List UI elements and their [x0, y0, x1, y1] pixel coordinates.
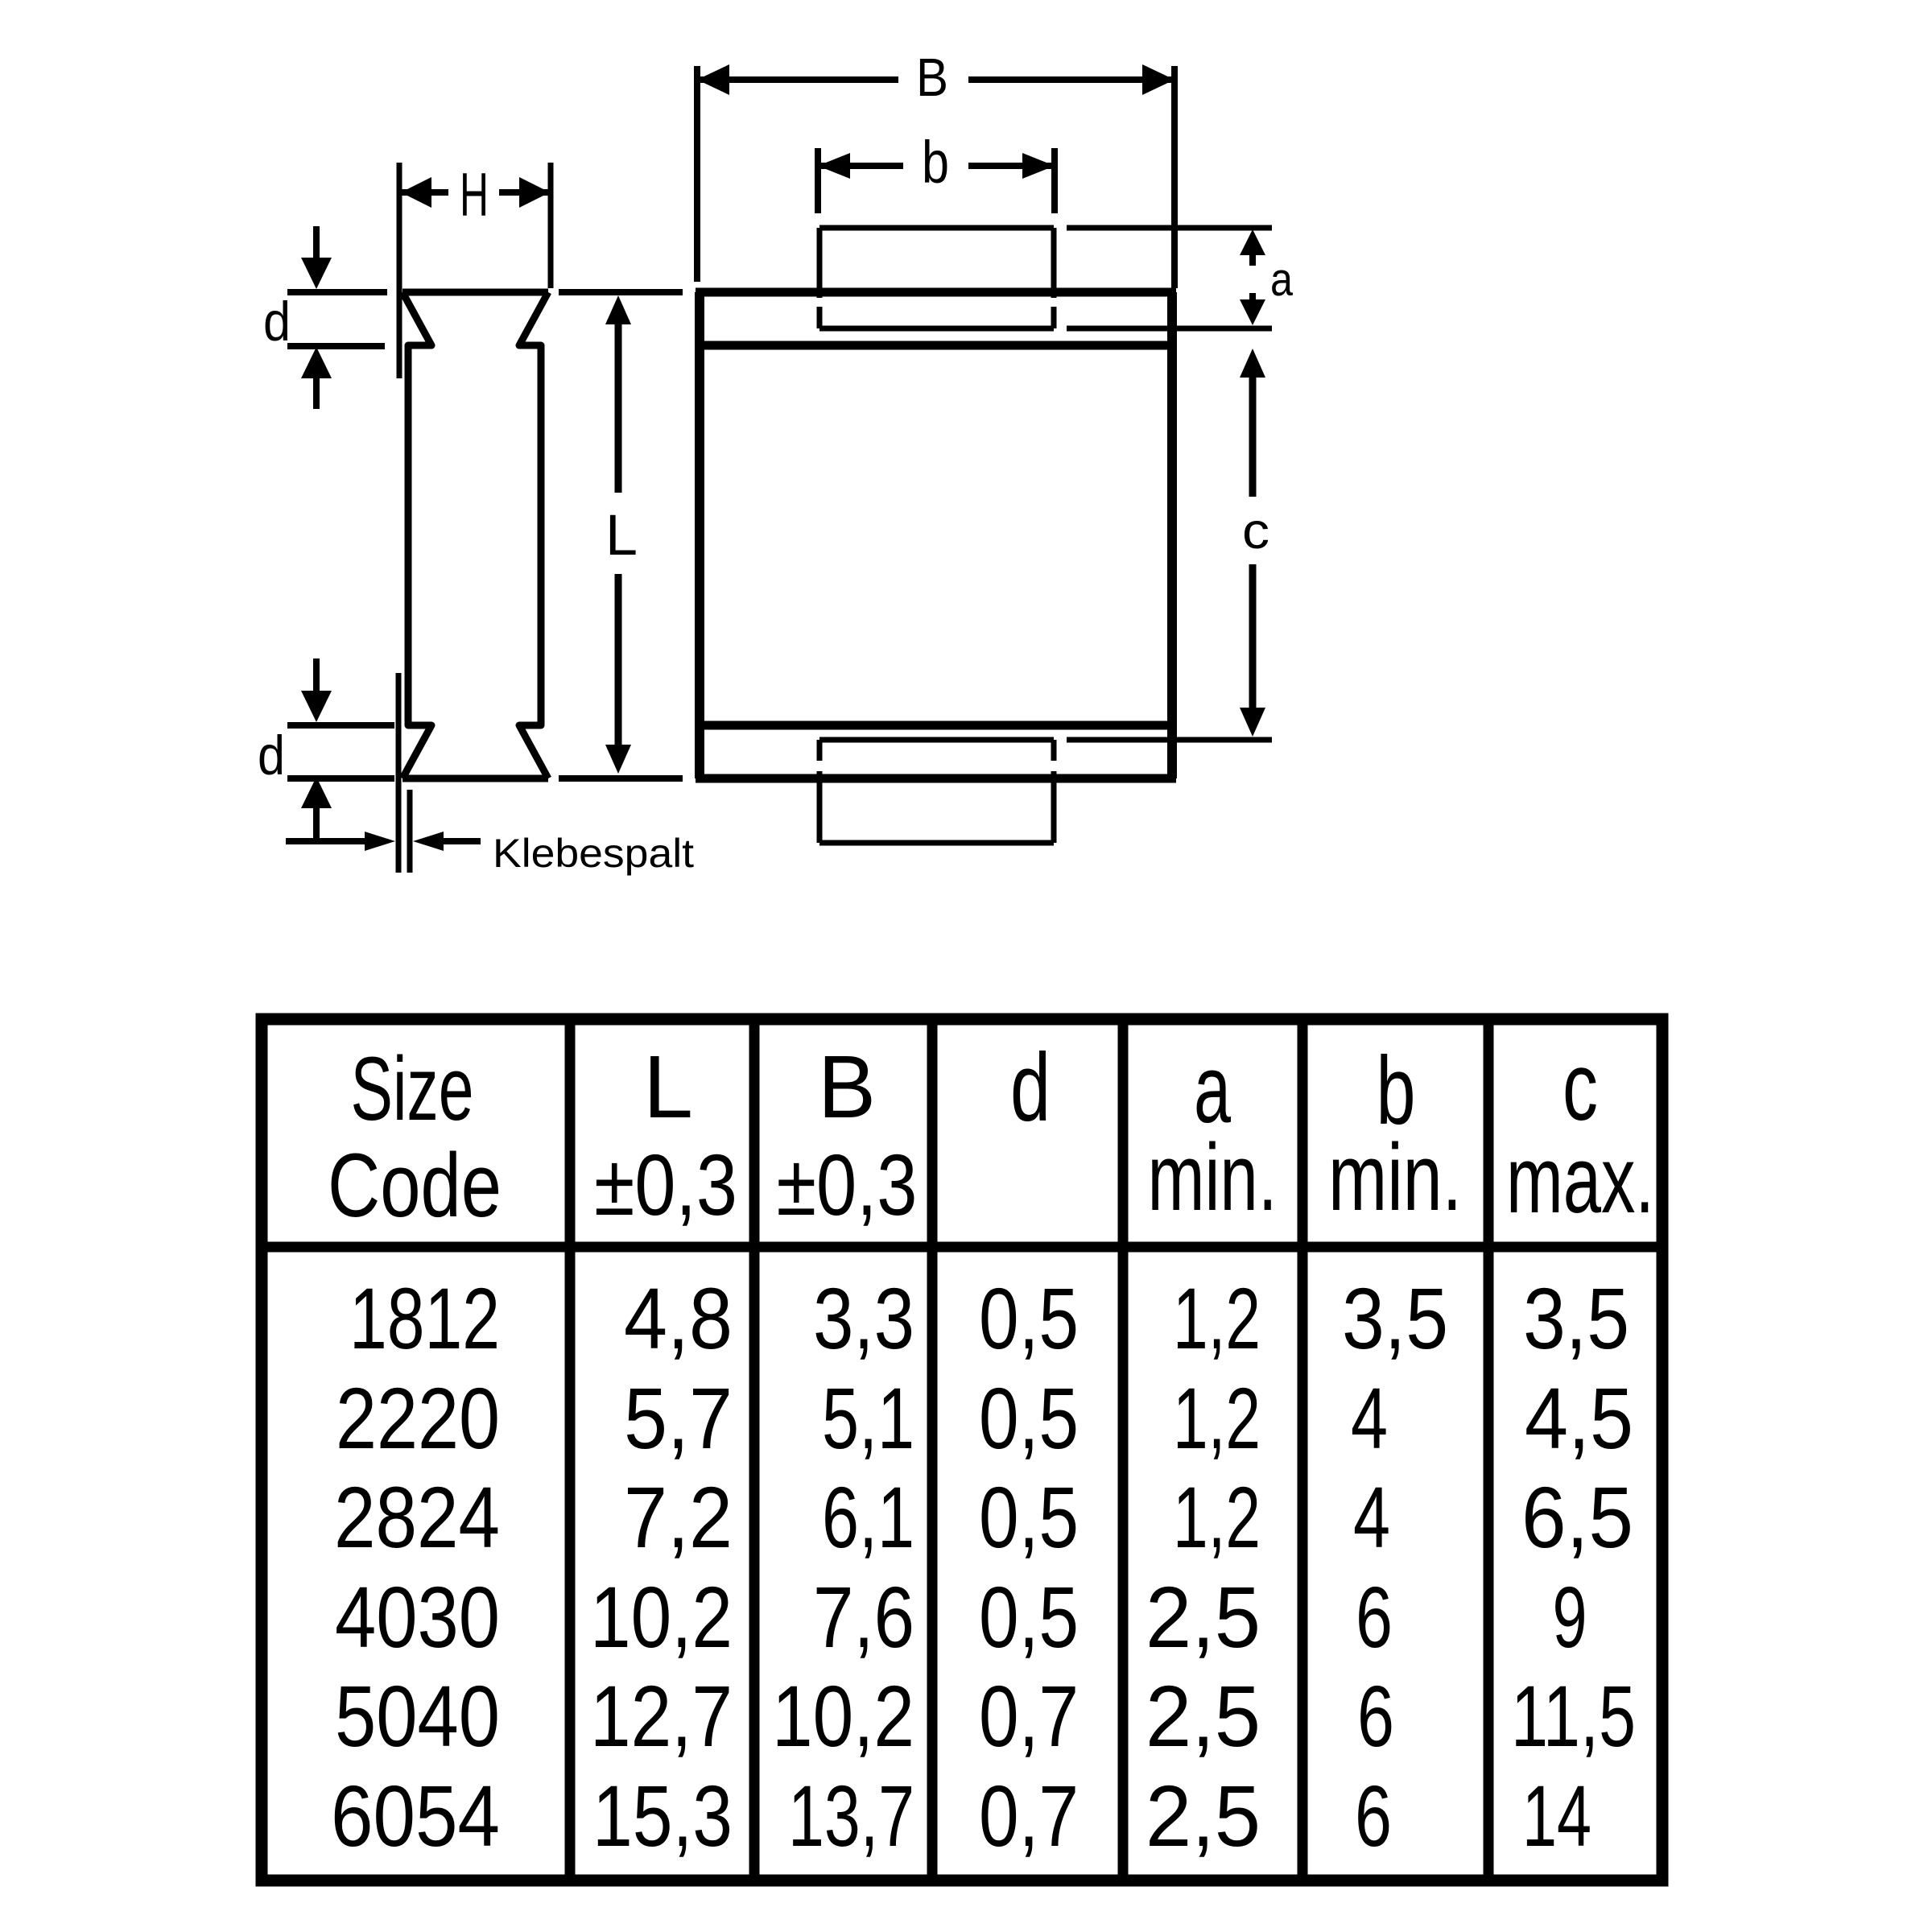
dimension c — [1240, 349, 1269, 737]
svg-text:1,2: 1,2 — [1173, 1269, 1261, 1367]
dimension c extension line — [1067, 737, 1272, 743]
svg-text:6,5: 6,5 — [1521, 1468, 1633, 1566]
svg-text:L: L — [605, 504, 638, 568]
dimension L — [605, 295, 638, 774]
svg-text:2,5: 2,5 — [1146, 1667, 1261, 1765]
dimension d (top) extension lines — [287, 292, 387, 346]
svg-text:L: L — [643, 1038, 693, 1137]
front view bottom metallization band line — [696, 721, 1176, 730]
svg-text:15,3: 15,3 — [592, 1767, 733, 1864]
svg-text:d: d — [263, 291, 291, 353]
svg-text:1812: 1812 — [349, 1269, 500, 1367]
svg-text:5040: 5040 — [335, 1667, 500, 1765]
svg-text:d: d — [1010, 1034, 1051, 1141]
svg-text:11,5: 11,5 — [1511, 1667, 1636, 1765]
svg-text:a: a — [1270, 254, 1294, 306]
dimension H — [401, 161, 551, 229]
svg-text:b: b — [922, 129, 949, 196]
svg-text:14: 14 — [1522, 1767, 1591, 1864]
table data: B column — [772, 1269, 914, 1864]
svg-text:max.: max. — [1506, 1127, 1654, 1233]
table data: c column — [1511, 1269, 1636, 1864]
dimension b extension lines — [818, 148, 1055, 213]
dimension b — [818, 129, 1055, 196]
svg-text:4030: 4030 — [335, 1568, 500, 1666]
svg-text:6: 6 — [1355, 1767, 1392, 1864]
svg-text:6,1: 6,1 — [822, 1468, 914, 1566]
front view top edge — [696, 288, 1176, 297]
svg-text:3,5: 3,5 — [1523, 1269, 1629, 1367]
svg-text:2,5: 2,5 — [1146, 1568, 1261, 1666]
front view body outline — [700, 292, 1172, 778]
svg-text:4,8: 4,8 — [624, 1269, 733, 1367]
svg-text:10,2: 10,2 — [590, 1568, 733, 1666]
front view bottom edge — [696, 774, 1176, 783]
table data: Size Code column — [331, 1269, 500, 1864]
svg-text:4,5: 4,5 — [1525, 1369, 1633, 1467]
svg-text:H: H — [460, 161, 489, 229]
svg-text:4: 4 — [1353, 1468, 1390, 1566]
svg-text:2220: 2220 — [336, 1369, 500, 1467]
svg-text:5,1: 5,1 — [822, 1369, 914, 1467]
dimension L extension lines — [559, 292, 683, 778]
dimension H extension lines — [399, 163, 551, 378]
dimension a extension lines — [1067, 228, 1272, 328]
svg-text:5,7: 5,7 — [624, 1369, 733, 1467]
svg-text:12,7: 12,7 — [590, 1667, 733, 1765]
svg-text:0,7: 0,7 — [979, 1667, 1079, 1765]
svg-text:6: 6 — [1357, 1667, 1394, 1765]
svg-text:6054: 6054 — [331, 1767, 500, 1864]
table data: b column — [1342, 1269, 1448, 1864]
svg-text:d: d — [258, 724, 285, 786]
Klebespalt gap lines — [398, 673, 410, 873]
table data: d column — [979, 1269, 1079, 1864]
svg-text:0,5: 0,5 — [979, 1269, 1079, 1367]
svg-text:±0,3: ±0,3 — [594, 1136, 737, 1233]
dimension d (bottom) extension lines — [287, 725, 394, 778]
table data: L column — [590, 1269, 733, 1864]
table column dividers — [570, 1019, 1488, 1880]
svg-text:1,2: 1,2 — [1173, 1468, 1261, 1566]
front view top metallization band line — [696, 341, 1176, 350]
Klebespalt arrows — [286, 832, 481, 851]
table header separator — [262, 1242, 1662, 1253]
svg-text:6: 6 — [1356, 1568, 1393, 1666]
table data: a column — [1146, 1269, 1261, 1864]
dimension B extension lines — [697, 66, 1174, 288]
svg-text:0,5: 0,5 — [979, 1568, 1079, 1666]
svg-text:0,5: 0,5 — [979, 1468, 1079, 1566]
svg-text:13,7: 13,7 — [788, 1767, 914, 1864]
svg-text:B: B — [916, 47, 948, 108]
svg-text:9: 9 — [1553, 1568, 1587, 1666]
svg-text:0,5: 0,5 — [979, 1369, 1079, 1467]
svg-text:Code: Code — [328, 1135, 502, 1236]
svg-text:B: B — [818, 1038, 876, 1137]
svg-text:2,5: 2,5 — [1146, 1767, 1261, 1864]
svg-text:c: c — [1242, 503, 1269, 559]
dimension d (bottom) arrows — [258, 658, 332, 840]
svg-text:3,5: 3,5 — [1342, 1269, 1448, 1367]
dimension d (top) arrows — [263, 226, 332, 409]
svg-text:7,6: 7,6 — [813, 1568, 914, 1666]
table outer border — [262, 1019, 1662, 1880]
svg-text:2824: 2824 — [334, 1468, 500, 1566]
svg-text:Klebespalt: Klebespalt — [493, 831, 694, 876]
dimension a arrows — [1240, 229, 1294, 325]
svg-text:4: 4 — [1351, 1369, 1388, 1467]
top solder pad — [819, 228, 1054, 328]
svg-text:3,3: 3,3 — [813, 1269, 914, 1367]
svg-text:Size: Size — [351, 1038, 474, 1139]
svg-text:min.: min. — [1148, 1125, 1278, 1231]
dimension B — [697, 47, 1174, 108]
bottom solder pad — [819, 740, 1054, 843]
left view outline (side profile of chip) — [402, 292, 548, 778]
table header texts — [328, 1038, 502, 1236]
svg-text:1,2: 1,2 — [1173, 1369, 1261, 1467]
svg-text:0,7: 0,7 — [979, 1767, 1079, 1864]
svg-text:10,2: 10,2 — [772, 1667, 914, 1765]
svg-text:±0,3: ±0,3 — [777, 1136, 918, 1233]
svg-text:min.: min. — [1328, 1125, 1462, 1231]
svg-text:7,2: 7,2 — [624, 1468, 733, 1566]
svg-text:c: c — [1563, 1033, 1598, 1141]
